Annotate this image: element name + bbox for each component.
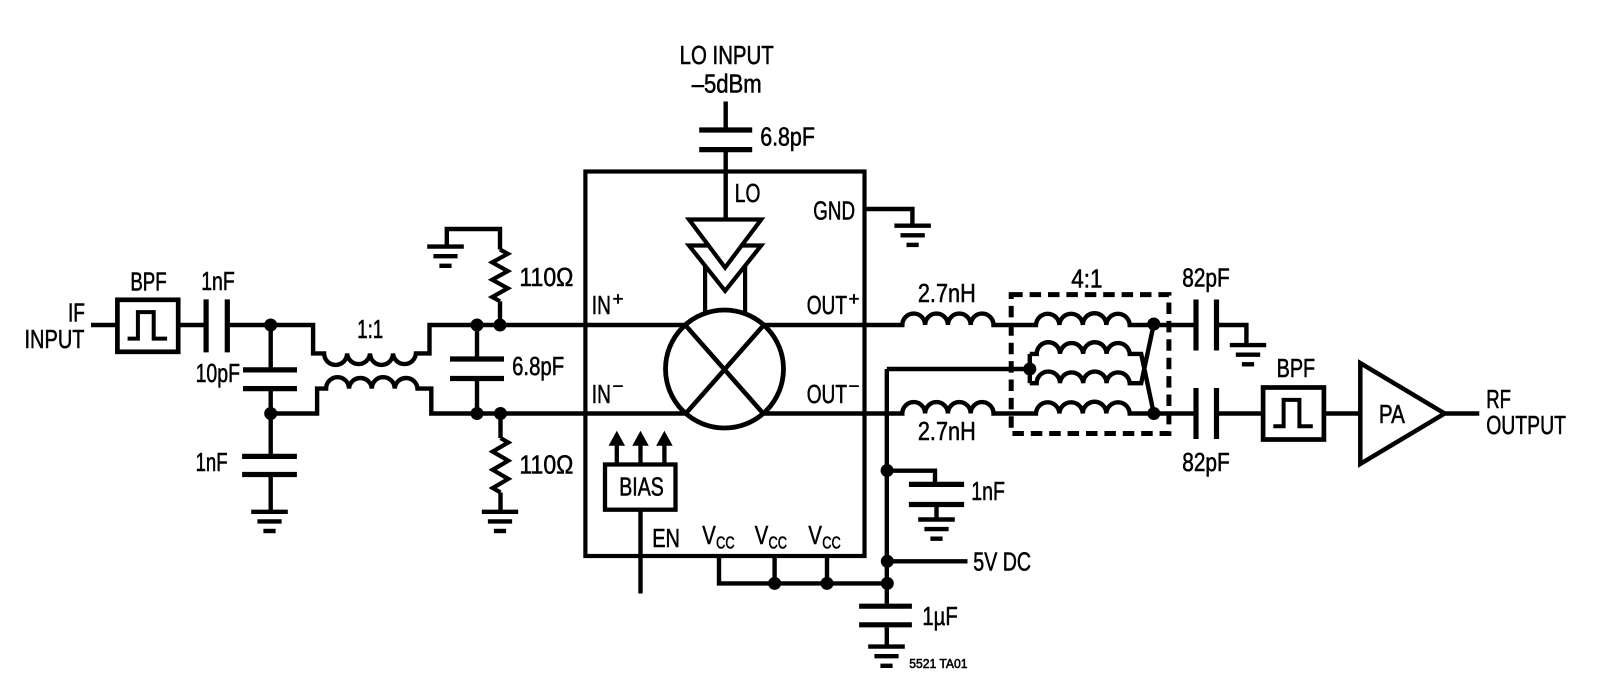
svg-text:BPF: BPF (130, 269, 166, 297)
svg-text:5V DC: 5V DC (973, 549, 1031, 577)
svg-text:BIAS: BIAS (619, 474, 664, 502)
svg-text:EN: EN (652, 525, 680, 553)
svg-text:–5dBm: –5dBm (692, 71, 762, 99)
svg-text:+: + (613, 289, 624, 309)
svg-text:1nF: 1nF (201, 268, 235, 296)
svg-text:5521 TA01: 5521 TA01 (909, 657, 967, 671)
svg-text:LO: LO (735, 180, 761, 208)
svg-text:1nF: 1nF (196, 449, 228, 477)
svg-text:82pF: 82pF (1182, 449, 1230, 477)
svg-text:−: − (613, 376, 624, 396)
svg-text:BPF: BPF (1277, 355, 1316, 383)
svg-text:6.8pF: 6.8pF (512, 353, 564, 381)
svg-text:2.7nH: 2.7nH (918, 418, 976, 446)
svg-text:2.7nH: 2.7nH (918, 280, 976, 308)
svg-text:110Ω: 110Ω (519, 451, 573, 479)
svg-text:+: + (849, 289, 860, 309)
svg-text:INPUT: INPUT (25, 326, 85, 354)
svg-text:10pF: 10pF (196, 360, 240, 388)
svg-text:PA: PA (1379, 401, 1406, 429)
svg-text:1µF: 1µF (922, 603, 957, 631)
svg-text:CC: CC (769, 533, 788, 553)
svg-text:IF: IF (68, 300, 85, 328)
svg-text:GND: GND (813, 197, 855, 225)
svg-text:IN: IN (592, 381, 611, 409)
svg-text:OUT: OUT (807, 292, 847, 320)
svg-text:IN: IN (592, 292, 611, 320)
svg-text:CC: CC (716, 533, 735, 553)
svg-text:OUT: OUT (807, 381, 847, 409)
svg-text:V: V (808, 522, 822, 550)
svg-text:110Ω: 110Ω (519, 264, 573, 292)
svg-text:82pF: 82pF (1182, 264, 1230, 292)
svg-text:CC: CC (822, 533, 841, 553)
svg-text:1nF: 1nF (971, 478, 1005, 506)
svg-text:OUTPUT: OUTPUT (1486, 412, 1566, 440)
svg-text:V: V (702, 522, 716, 550)
svg-text:LO INPUT: LO INPUT (680, 42, 774, 70)
svg-text:1:1: 1:1 (357, 316, 383, 344)
svg-text:6.8pF: 6.8pF (760, 123, 815, 151)
svg-text:RF: RF (1486, 386, 1511, 414)
svg-text:V: V (755, 522, 769, 550)
svg-text:−: − (849, 376, 860, 396)
svg-text:4:1: 4:1 (1071, 266, 1102, 294)
